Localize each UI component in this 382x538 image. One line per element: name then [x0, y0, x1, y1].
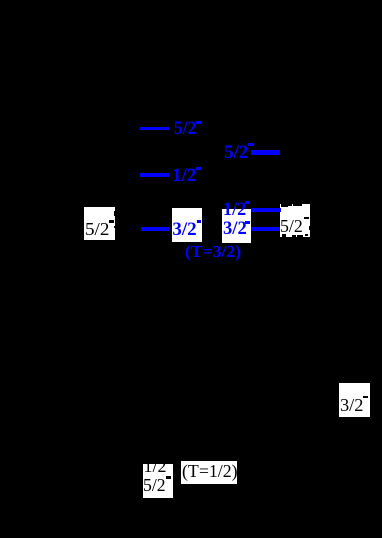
white bbox of black 5/2- label, left column — [84, 207, 115, 240]
blue label 5/2- column 2 top — [174, 119, 196, 138]
black label 3/2- partial (bottom of "3") above right box — [281, 204, 288, 207]
black level-line notch on left box right edge (upper) — [114, 211, 115, 216]
black label 3/2- partial (bottom serif of "2") — [293, 204, 302, 206]
blue label 1/2- column 3 — [223, 200, 246, 219]
black level-line notch on left box right edge (lower) — [114, 226, 115, 229]
blue label 5/2- column 3 — [224, 143, 248, 162]
white bbox of black (T=1/2) label — [181, 461, 237, 484]
minus of blue 5/2- column 3 — [248, 143, 253, 146]
minus of black 5/2- left box — [109, 220, 114, 223]
black label 1/2- partial (top of "2") — [297, 235, 303, 237]
blue level line 3/2- column 3 — [251, 227, 280, 231]
white bbox of blue 3/2- label, column 2 — [172, 208, 203, 243]
minus of black 3/2- right bottom box — [363, 396, 368, 399]
blue level line 5/2- column 2 — [140, 127, 169, 130]
blue label 3/2- column 3 (on white box) — [223, 219, 247, 238]
minus of blue 3/2- column 3 — [245, 221, 251, 224]
blue label 3/2- column 2 (on white box) — [172, 220, 196, 239]
white bbox of blue 1/2-,3/2- labels, column 3 — [222, 209, 251, 243]
minus of blue 1/2- column 3 — [245, 201, 251, 205]
white bbox of black 5/2- label, right column — [280, 204, 310, 237]
black label 1/2- partial (top of "1") below right box — [282, 234, 287, 237]
black label 1/2- partial (top of "/") — [292, 235, 296, 238]
white bbox of black 3/2- label, right bottom — [339, 383, 370, 418]
blue level line 3/2- column 2 — [141, 227, 169, 231]
black level-line notch on right box right edge — [309, 226, 310, 230]
black label 5/2- in left box — [85, 220, 109, 238]
black label 3/2- in right bottom box — [340, 396, 363, 414]
minus of black 5/2- right box — [304, 217, 309, 220]
blue level line 1/2- column 3 — [251, 208, 281, 212]
white bbox of black 5/2- label, bottom center — [143, 464, 173, 498]
minus of black 5/2- bottom box — [166, 476, 171, 479]
black label 1/2- partially visible above bottom box — [144, 457, 167, 475]
blue level line 1/2- column 2 — [140, 173, 169, 177]
minus of blue 1/2- column 2 — [196, 167, 201, 170]
blue label 1/2- column 2 — [172, 166, 196, 185]
minus of blue 5/2- column 2 top — [196, 121, 202, 124]
black label 5/2- in bottom box — [143, 476, 166, 494]
black label (T=1/2) — [182, 462, 238, 480]
black label 3/2- partial (bottom of "/") — [288, 204, 292, 206]
blue label (T=3/2) — [185, 243, 241, 260]
black label 5/2- in right box — [280, 217, 303, 235]
minus of black 1/2- below right box — [305, 234, 308, 236]
blue level line 5/2- column 3 — [251, 150, 280, 154]
minus of blue 3/2- column 2 — [197, 220, 202, 223]
